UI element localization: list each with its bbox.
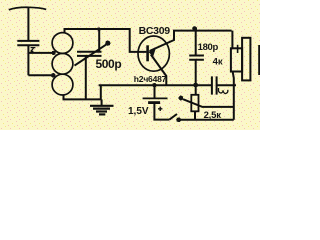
svg-text:BC309: BC309	[139, 25, 171, 37]
svg-text:500p: 500p	[96, 57, 122, 71]
svg-text:h2ч6487: h2ч6487	[134, 74, 167, 84]
svg-text:1,5V: 1,5V	[128, 106, 149, 117]
svg-text:2,5к: 2,5к	[204, 110, 222, 121]
svg-text:4к: 4к	[213, 56, 223, 67]
svg-text:180p: 180p	[198, 42, 219, 53]
